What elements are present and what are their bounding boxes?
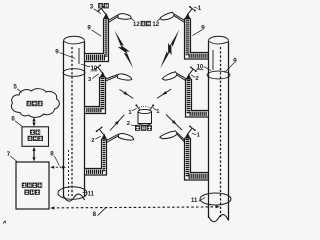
clamp ring on right pole (207, 71, 230, 79)
street lamp tier2 left (106, 76, 118, 81)
link input server to processor (33, 148, 35, 160)
cable 8 processor to left pole (52, 166, 62, 168)
svg-text:3: 3 (90, 4, 94, 11)
mobile station 2 (138, 112, 152, 124)
clamp 11 right pole bottom (200, 193, 231, 205)
cable 10 inside left pole (71, 47, 73, 196)
label 处理器 (24, 190, 29, 195)
conduit 9 tier3 right (191, 138, 209, 173)
svg-text:11: 11 (88, 192, 95, 198)
svg-text:1: 1 (198, 5, 202, 12)
antenna 1 tier1 right (185, 13, 191, 19)
signal arrow station to tier3-right (166, 115, 182, 131)
svg-text:11: 11 (191, 198, 198, 204)
label 输入 (30, 130, 35, 135)
street lamp tier3 right (177, 134, 185, 142)
label 核心网 (27, 101, 32, 106)
signal arrow tier2-left to station (120, 90, 134, 99)
street lamp 12 tier1 right (174, 16, 185, 23)
svg-text:9: 9 (55, 48, 59, 55)
core network cloud 5 (11, 89, 59, 118)
antenna 3 tier2 left (100, 72, 106, 78)
cable 8 processor to right pole (52, 207, 217, 208)
radio bolt tier1 left (115, 31, 134, 69)
svg-text:8: 8 (50, 151, 54, 158)
antenna 2 tier2 right (186, 74, 192, 80)
svg-text:12: 12 (152, 22, 159, 28)
label 路灯 (141, 21, 146, 26)
street lamp tier2 right (177, 75, 186, 81)
radio bolt tier1 right (160, 30, 179, 69)
svg-text:2: 2 (127, 121, 130, 127)
conduit 9 tier3 left (85, 139, 102, 169)
conduit 9 tier2 left (85, 77, 100, 107)
svg-text:5: 5 (13, 84, 17, 91)
svg-text:9: 9 (201, 25, 205, 32)
input server 6 (22, 127, 49, 147)
lamp pole left (63, 41, 65, 197)
antenna 1 tier3 right (185, 133, 191, 139)
antenna 2 tier3 left (101, 134, 107, 140)
conduit 9 tier1 right (191, 19, 209, 53)
signal arrow tier3-left to station (110, 115, 124, 131)
clamp ring on left pole (63, 69, 85, 77)
svg-text:8: 8 (93, 211, 97, 218)
clamp 11 left pole bottom (58, 187, 87, 200)
link cloud to input server (33, 119, 35, 126)
svg-text:2: 2 (91, 138, 94, 144)
street lamp tier3 left (107, 136, 119, 143)
svg-text:7: 7 (7, 151, 11, 158)
lamp pole right (208, 41, 210, 218)
conduit 9 tier2 right (192, 79, 209, 111)
central signal processor 7 (16, 162, 49, 209)
conduit 9 tier1 left (85, 19, 104, 54)
svg-text:9: 9 (87, 25, 91, 32)
label 天线 (98, 3, 103, 8)
signal arrow tier2-right to station (157, 89, 171, 98)
scan mark bottom left (3, 221, 6, 224)
label 服务器 (28, 136, 33, 141)
street lamp 12 tier1 left (109, 16, 119, 22)
cable 10 inside right pole (220, 47, 222, 217)
svg-text:2: 2 (195, 76, 198, 82)
svg-text:6: 6 (11, 115, 15, 122)
antenna 3 tier1 left (103, 13, 109, 19)
label 移动台 (135, 125, 140, 131)
label 中心信号 (22, 183, 27, 188)
svg-text:12: 12 (133, 22, 140, 28)
